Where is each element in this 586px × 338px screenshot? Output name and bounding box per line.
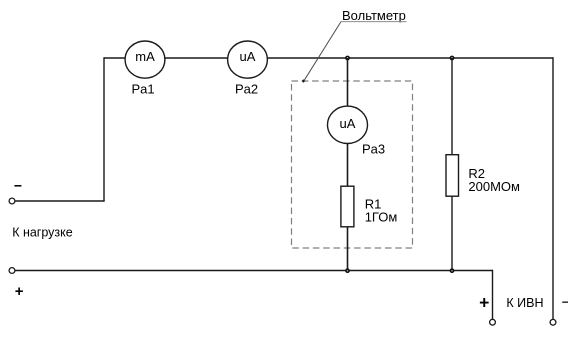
svg-text:−: − [562, 297, 569, 309]
wire drop to +IVN terminal [492, 270, 494, 320]
wire right vertical [552, 57, 554, 319]
svg-text:+: + [479, 292, 489, 312]
svg-text:Вольтметр: Вольтметр [342, 8, 406, 23]
terminal: load plus [9, 268, 15, 274]
svg-text:uA: uA [340, 116, 356, 131]
svg-text:Pa2: Pa2 [235, 82, 258, 97]
leader line to dashed box [304, 22, 341, 81]
wire R1 to bottom bus [347, 227, 349, 271]
resistor R2 [446, 155, 520, 197]
svg-text:Pa1: Pa1 [132, 82, 155, 97]
svg-text:К ИВН: К ИВН [506, 296, 543, 310]
node junction at Pa3 bottom [346, 269, 349, 272]
terminal: load minus [9, 198, 15, 204]
terminal: IVN minus [550, 319, 556, 325]
svg-text:200МОм: 200МОм [468, 179, 520, 194]
node junction at R2 bottom [450, 269, 453, 272]
node junction at R2 top [450, 56, 453, 59]
wire Pa2 to top-right corner [267, 57, 553, 59]
leader arrowhead [302, 79, 305, 82]
microammeter Pa3 [328, 106, 386, 157]
resistor R1 [341, 186, 397, 227]
svg-text:К нагрузке: К нагрузке [12, 225, 73, 239]
wire Pa1 to Pa2 [165, 57, 228, 59]
terminal: IVN plus [490, 319, 496, 325]
wire top bus to Pa3 [347, 58, 349, 106]
svg-text:1ГОм: 1ГОм [365, 210, 398, 225]
label Voltmetr with underline [341, 8, 407, 23]
wire bottom bus [15, 270, 494, 272]
wire Pa3 to R1 [347, 143, 349, 186]
wire left horizontal to load terminal [15, 200, 105, 202]
svg-text:Pa3: Pa3 [362, 142, 385, 157]
voltmeter dashed enclosure [292, 81, 413, 248]
svg-text:uA: uA [240, 49, 256, 64]
wire top bus: left corner to Pa1 [104, 57, 125, 59]
svg-text:mA: mA [135, 49, 155, 64]
ammeter Pa1 [125, 41, 165, 97]
wire top bus to R2 [451, 58, 453, 155]
wire left vertical [103, 57, 105, 201]
svg-text:−: − [14, 178, 22, 194]
microammeter Pa2 [228, 41, 268, 97]
wire R2 to bottom bus [451, 196, 453, 270]
node junction at Pa3 top [346, 56, 349, 59]
svg-text:+: + [15, 283, 24, 300]
